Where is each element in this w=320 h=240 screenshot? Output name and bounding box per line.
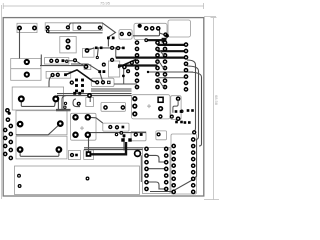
capacitor C4 outline [171,96,181,120]
diode D5 outline [103,123,129,131]
svg-text:68.58: 68.58 [214,95,219,106]
IC U5 outline [171,134,197,194]
wire bus mid1 [91,89,132,91]
connector J3 outline [168,20,191,37]
diode D3 outline [82,49,94,58]
relay K2 outline [71,113,97,140]
node U5 top pad [193,131,196,134]
node dim-top [1,3,203,199]
capacitor C8 pads [71,154,74,157]
IC U2 pads colC [163,41,166,89]
node via pads [74,59,77,62]
IC U6 smd pads [75,79,78,82]
wire U5 diag [150,180,193,192]
IC U1 pads colA [135,41,138,89]
module M1 outline [15,166,140,195]
board outline [3,18,204,196]
diode D2 pads [51,74,54,77]
resistor R3 outline [73,23,103,31]
node N2 pad [165,34,169,38]
wire R2 top [68,23,116,37]
capacitor C1 pads [120,33,123,36]
IC U1 pads colB [156,41,159,89]
wire D3 diag [89,48,95,50]
relay K2 pads [73,115,77,119]
resistor R2 outline [45,23,69,31]
wire Q1 drop [89,96,91,102]
resistor R9 outline [101,103,126,112]
resistor R3 pads [78,26,81,29]
IC U4 pads colR [165,147,168,190]
capacitor C2 pads [19,97,24,102]
resistor R2 pads [46,26,49,29]
capacitor C3 pads [66,39,69,42]
IC U3 pads [96,81,99,84]
capacitor C6 outline [16,136,67,159]
wire bottom bar [91,142,126,154]
node cluster pads [111,58,114,61]
diode D2 outline [46,71,71,78]
IC U5 pads colL [172,144,175,193]
connector J1 pads colR [9,124,12,159]
wire U5 colR vert [193,140,196,180]
node dim-right [204,17,219,200]
transistor Q1 outline [86,98,94,107]
capacitor C5 outline [16,111,67,135]
node bar0 ends [145,39,148,42]
connector J4 pads colD [184,43,187,91]
wire blob down [123,136,125,151]
wire J2 internal [133,28,164,35]
wire bar2 [158,50,185,52]
relay K1 pads [133,97,137,101]
wire bus mid2 [57,94,132,96]
wire U3 to colA [114,68,137,84]
capacitor C6 pads [18,147,23,152]
wire D1 under2 [71,64,100,71]
diode D7 pad [157,133,160,136]
wire diag cluster [118,60,136,68]
diode D6 outline [131,131,146,140]
wire U1 U2 links [158,49,166,87]
fuse F1 outline [11,59,41,81]
wire bar4 [118,64,158,66]
wire C2 U [21,99,56,107]
smd pads right [187,109,190,112]
wire D5 diag [88,117,103,123]
smd pads mid [73,92,76,95]
resistor R9 pads [104,106,107,109]
IC U5 pads colR [192,138,195,194]
smd pair bottom [121,138,124,141]
capacitor C1 outline [119,30,132,39]
node blob pads [120,132,123,135]
wire U4 link3 [147,182,167,189]
diode D5 pads [109,126,112,129]
wire top bus [48,32,103,34]
resistor R1 pads [18,26,21,29]
wire IC1 gray2 [159,77,187,79]
wire F1 right vert [40,55,42,66]
resistor R1 outline [17,23,37,32]
fuse F1 pads [25,60,29,64]
wire D1 under [40,65,88,67]
wire blob arc [73,99,80,107]
diode D1 outline [45,58,69,65]
wire diag thick [66,70,98,82]
wire C5 int [16,124,60,135]
wire U4 link1 [147,155,167,162]
wire bar3 [116,56,185,58]
wire U4 link2 [147,168,167,170]
node big pad [135,151,141,157]
wire bar1 [158,44,185,46]
capacitor C5 pads [18,122,23,127]
capacitor C4 pads [177,97,180,100]
wire R1 down [19,28,21,59]
diode D3 pad [85,49,88,52]
capacitor C8 outline [69,151,81,160]
diode D8 outline [108,61,119,77]
wire D2 arc [49,75,53,87]
wire right bundle3 [187,72,202,146]
diode D7 outline [156,131,167,140]
wire IC1 gray [148,71,193,73]
node bus pad [88,94,91,97]
wire K2 pad down [88,137,90,152]
wire bar0 [146,39,164,41]
wire C6 int [20,150,59,157]
capacitor C9 outline [84,150,94,159]
wire U4 left vert [140,155,142,182]
diode D4 outline [84,65,91,70]
relay K1 outline [132,95,171,119]
svg-text:75.95: 75.95 [100,1,111,6]
wire C4 internal [173,100,178,113]
wire mid bus48 [97,47,122,49]
wire bus arc [62,96,66,110]
wire right bundle1 [187,60,196,132]
wire gray pair [84,148,143,150]
capacitor C3 outline [60,37,76,53]
wire mid gray [88,132,146,134]
IC U3 outline [91,78,114,86]
wire K2 top [56,101,71,111]
wire D1 ext [64,61,85,66]
capacitor C2 outline [12,87,63,110]
connector J1 pads colL [4,128,7,155]
wire U3 diag [100,72,103,82]
connector J2 pads [138,24,142,28]
module M1 pads [18,174,21,177]
smd pads top [107,37,110,40]
connector J2 outline [134,23,167,39]
wire right bundle2 [187,66,199,140]
diode D1 pads [50,59,53,62]
connector J1 top pads [6,109,11,122]
node IC1 dot [147,71,149,73]
wire smd drop [97,39,108,57]
diode D4 pad [84,65,87,68]
diode D6 pads [134,133,137,136]
IC U4 outline [143,148,171,194]
IC U4 pads colL [145,147,148,190]
wire bar3 up [115,48,117,58]
capacitor C9 pad [86,151,92,157]
